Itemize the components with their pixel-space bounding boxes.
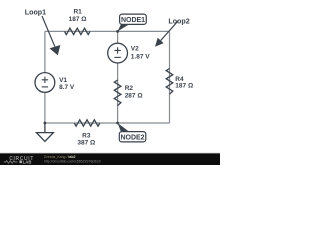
svg-text:Loop2: Loop2 bbox=[168, 18, 189, 26]
svg-text:NODE1: NODE1 bbox=[121, 17, 145, 24]
svg-text:1.87 V: 1.87 V bbox=[131, 54, 150, 61]
svg-text:Zvezda_Kang / lab2: Zvezda_Kang / lab2 bbox=[44, 155, 76, 159]
svg-text:R2: R2 bbox=[125, 85, 134, 92]
svg-text:187 Ω: 187 Ω bbox=[175, 83, 193, 90]
svg-text:8.7 V: 8.7 V bbox=[59, 84, 75, 91]
svg-text:R1: R1 bbox=[73, 9, 82, 16]
svg-text:NODE2: NODE2 bbox=[120, 135, 144, 142]
svg-text:387 Ω: 387 Ω bbox=[77, 140, 95, 147]
svg-text:V2: V2 bbox=[131, 45, 139, 52]
svg-text:http://circuitlab.com/c5652297: http://circuitlab.com/c56522976p5s2/ bbox=[44, 159, 101, 163]
svg-text:LAB: LAB bbox=[23, 159, 32, 164]
svg-text:187 Ω: 187 Ω bbox=[69, 16, 87, 23]
svg-text:287 Ω: 287 Ω bbox=[125, 93, 143, 100]
svg-text:Loop1: Loop1 bbox=[25, 9, 46, 17]
svg-text:R3: R3 bbox=[82, 133, 91, 140]
